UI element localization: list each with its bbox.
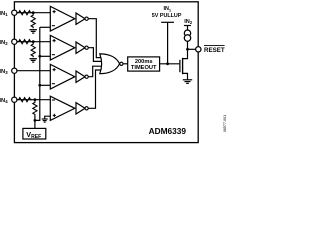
label IN1 (0, 11, 8, 17)
wire IN3 input to comparator U3 (17, 70, 50, 72)
NOR gate G1 (100, 54, 123, 74)
svg-text:IN2: IN2 (0, 40, 8, 46)
wire current source to node N7 (187, 41, 189, 49)
VREF bus vertical wire (35, 27, 40, 120)
wire U3 minus input from VREF bus (40, 84, 51, 86)
ground GND2 (30, 59, 37, 62)
svg-text:08577-001: 08577-001 (223, 115, 227, 132)
wire X2 output to gate input 2 (88, 48, 103, 62)
pin IN4 (12, 97, 17, 102)
inverter X1 (76, 13, 88, 24)
comparator U4 (inverted inputs) (50, 96, 75, 120)
wire X1 output to gate input 1 (88, 19, 103, 58)
wire U1 minus input from VREF bus (40, 26, 51, 28)
VREF reference block (23, 128, 46, 140)
wire timeout output to MOSFET gate (160, 63, 180, 65)
figure number (rotated) (223, 115, 227, 132)
transistor Q1 (N-channel MOSFET, open-drain output) (180, 49, 188, 79)
wire R4B bottom to VREF block (34, 116, 36, 129)
pullup rail bar (161, 21, 174, 23)
svg-text:5V PULLUP: 5V PULLUP (152, 13, 182, 19)
pin IN3 (12, 68, 17, 73)
rail bar IN2 (184, 25, 191, 27)
node on VREF bus for U3 minus input (38, 84, 41, 87)
resistor R2A (series, IN2) (18, 40, 32, 44)
inverter X2 (76, 42, 88, 53)
svg-text:IN1: IN1 (163, 6, 171, 12)
resistor R1A (series, IN1) (18, 11, 32, 15)
resistor R4B (shunt, IN4) (33, 100, 37, 116)
comparator U2 (50, 35, 75, 60)
pin IN2 (12, 39, 17, 44)
resistor R2B (shunt, IN2) (31, 43, 35, 57)
node N6 junction on gate wire (166, 62, 169, 65)
label IN2 (0, 40, 8, 46)
pin RESET (output) (196, 47, 201, 52)
inverter X3 (76, 71, 88, 82)
node N4A junction (divider chain) (34, 98, 37, 101)
ground GND5 under MOSFET source (183, 80, 192, 84)
svg-text:IN4: IN4 (0, 98, 8, 104)
resistor R1B (shunt, IN1) (31, 14, 35, 28)
label IN1 5V PULLUP (152, 6, 182, 19)
node on VREF bus for U2 minus input (38, 55, 41, 58)
node N1 junction (32, 11, 35, 14)
wire node N7 to RESET pin (188, 48, 196, 50)
wire U2 minus input from VREF bus (40, 55, 51, 57)
svg-text:IN3: IN3 (0, 69, 8, 75)
svg-text:ADM6339: ADM6339 (149, 126, 187, 136)
node N7 junction (186, 48, 189, 51)
wire G1 output to timeout block (123, 63, 128, 65)
wire IN2 input to comparator U2 (17, 41, 50, 43)
wire X4 output to gate input 4 (88, 70, 103, 108)
resistor R4A (series, IN4) (18, 98, 32, 102)
label IN3 (0, 69, 8, 75)
inverter X4 (76, 103, 88, 114)
timeout block 200ms (128, 57, 160, 71)
wire X3 output to gate input 3 (88, 66, 103, 77)
chip outline box ADM6339 (14, 2, 198, 143)
comparator U1 (50, 6, 75, 31)
svg-text:RESET: RESET (204, 47, 225, 54)
wire pullup rail down to node N6 (167, 22, 169, 64)
wire IN4 input to comparator U4 (17, 99, 50, 101)
label ADM6339 (149, 126, 187, 136)
label IN4 (0, 98, 8, 104)
label IN2 (current source rail) (184, 19, 193, 25)
wire IN1 input to comparator U1 (17, 12, 50, 14)
comparator U3 (50, 64, 75, 89)
current source I1 (184, 30, 190, 41)
wire rail to current source I1 (187, 26, 189, 31)
node N2 junction (32, 40, 35, 43)
svg-text:IN1: IN1 (0, 11, 8, 17)
pin IN1 (12, 10, 17, 15)
svg-text:TIMEOUT: TIMEOUT (131, 65, 157, 71)
node N5 junction (34, 119, 37, 122)
svg-text:IN2: IN2 (184, 19, 193, 25)
ground GND4 on U4 plus input (42, 119, 48, 122)
label RESET with overline (204, 46, 225, 54)
ground GND1 (30, 30, 37, 33)
wire U4 plus input with elbow (45, 116, 51, 119)
